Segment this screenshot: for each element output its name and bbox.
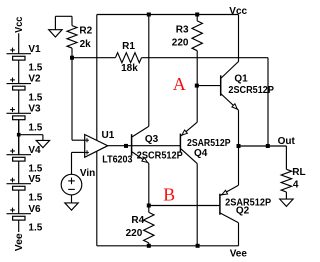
- svg-text:R1: R1: [122, 41, 135, 52]
- svg-text:2SCR512P: 2SCR512P: [137, 151, 183, 162]
- svg-text:Q3: Q3: [145, 134, 159, 145]
- svg-text:R4: R4: [131, 215, 144, 226]
- svg-text:2SCR512P: 2SCR512P: [228, 85, 274, 96]
- svg-text:U1: U1: [102, 130, 115, 141]
- svg-text:Vee: Vee: [14, 233, 25, 251]
- svg-text:1.5: 1.5: [28, 63, 42, 74]
- svg-text:V5: V5: [28, 174, 41, 185]
- svg-text:Vee: Vee: [230, 248, 248, 259]
- svg-text:1.5: 1.5: [28, 122, 42, 133]
- svg-text:Q2: Q2: [236, 206, 250, 217]
- svg-text:Vin: Vin: [80, 168, 95, 179]
- svg-text:Out: Out: [278, 136, 296, 147]
- svg-text:Vcc: Vcc: [14, 16, 25, 33]
- svg-text:220: 220: [172, 37, 189, 48]
- svg-text:1.5: 1.5: [28, 223, 42, 234]
- svg-text:LT6203: LT6203: [102, 154, 133, 165]
- svg-text:Vcc: Vcc: [229, 6, 247, 17]
- svg-text:Q1: Q1: [234, 74, 248, 85]
- svg-text:18k: 18k: [121, 63, 138, 74]
- svg-text:4: 4: [293, 179, 299, 190]
- svg-text:R2: R2: [79, 25, 92, 36]
- svg-text:220: 220: [126, 228, 143, 239]
- svg-text:B: B: [163, 185, 175, 205]
- svg-text:2k: 2k: [80, 39, 92, 50]
- svg-text:A: A: [173, 74, 186, 94]
- svg-text:Q4: Q4: [194, 148, 208, 159]
- svg-text:R3: R3: [176, 24, 189, 35]
- svg-text:1.5: 1.5: [28, 93, 42, 104]
- svg-text:V4: V4: [28, 145, 41, 156]
- svg-text:V1: V1: [28, 44, 41, 55]
- svg-text:V3: V3: [28, 103, 41, 114]
- svg-text:V6: V6: [28, 204, 41, 215]
- svg-text:V2: V2: [28, 74, 41, 85]
- svg-text:1.5: 1.5: [28, 193, 42, 204]
- svg-text:RL: RL: [292, 167, 305, 178]
